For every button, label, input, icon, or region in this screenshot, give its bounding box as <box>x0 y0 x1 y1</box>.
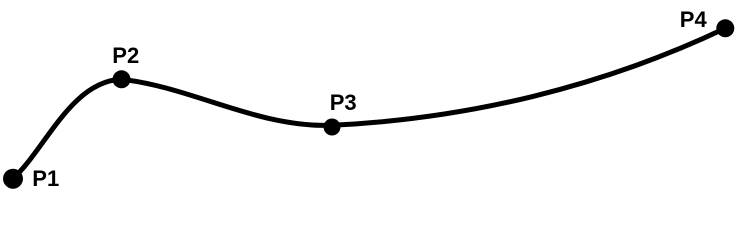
svg-text:P3: P3 <box>330 90 357 115</box>
svg-text:P2: P2 <box>112 43 139 68</box>
node P2 <box>113 70 131 88</box>
wire curve through P1 P2 P3 P4 <box>13 28 725 178</box>
node P4 <box>716 19 734 37</box>
node P1 <box>3 169 23 189</box>
svg-text:P1: P1 <box>32 166 59 191</box>
svg-text:P4: P4 <box>680 7 708 32</box>
node P3 <box>324 119 341 136</box>
